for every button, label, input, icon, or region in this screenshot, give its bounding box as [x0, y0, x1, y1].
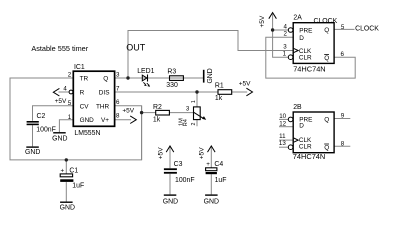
svg-text:1uF: 1uF [72, 183, 84, 190]
svg-text:CV: CV [80, 103, 90, 110]
wire 2B pin11 stub [279, 139, 293, 141]
svg-text:THR: THR [96, 103, 110, 110]
2B pin bubbles [288, 117, 293, 122]
svg-text:GND: GND [204, 198, 219, 205]
svg-text:6: 6 [341, 51, 345, 58]
wire C1 down [65, 160, 67, 174]
svg-text:6: 6 [116, 99, 120, 106]
ground C3 [164, 194, 177, 195]
svg-text:R3: R3 [167, 68, 176, 75]
2A pin bubbles [288, 28, 293, 33]
wire pin1 to GND [59, 120, 73, 133]
svg-text:2A: 2A [293, 14, 302, 21]
+5V arrow above C4 [208, 146, 216, 152]
node Q-OUT junction [126, 76, 129, 79]
resistor R2 1k [156, 110, 170, 115]
svg-text:GND: GND [25, 149, 40, 156]
svg-text:GND: GND [60, 205, 75, 212]
+5V arrow above C3 [166, 146, 174, 152]
wire R1 to +5V [232, 91, 248, 93]
svg-text:+5V: +5V [239, 80, 251, 87]
svg-text:13: 13 [279, 140, 286, 147]
+5V arrow at pin8 [130, 116, 136, 124]
wire C1 to GND [65, 182, 67, 201]
svg-text:R1: R1 [215, 82, 224, 89]
svg-text:12: 12 [279, 120, 286, 127]
svg-text:LM555N: LM555N [74, 130, 100, 137]
ground C4 [205, 194, 218, 195]
wire pot pin2 stub [196, 120, 198, 127]
svg-text:8: 8 [116, 113, 120, 120]
svg-text:1: 1 [191, 100, 197, 103]
wire DIS row to R1 [115, 91, 219, 93]
+5V arrow at pin4 [53, 88, 59, 96]
wire C4 to GND [210, 174, 212, 194]
svg-text:+: + [206, 161, 210, 168]
svg-text:Q: Q [103, 75, 108, 82]
wire R2 row to pot [142, 112, 156, 114]
svg-text:LED1: LED1 [137, 68, 154, 75]
ground rotated after R3 [203, 70, 205, 83]
flip-flop 2B 74HC74N [293, 112, 334, 153]
ground IC1 pin1 [53, 132, 65, 133]
pin 4 bubble [69, 90, 73, 94]
resistor R1 1k [218, 90, 232, 95]
svg-text:+5V: +5V [122, 108, 134, 115]
svg-text:D: D [299, 123, 304, 130]
svg-text:10: 10 [279, 113, 286, 120]
svg-text:5: 5 [341, 24, 345, 31]
wire C3 +5V down [169, 147, 171, 168]
svg-text:+: + [61, 167, 65, 174]
wire C4 +5V down [210, 147, 212, 168]
capacitor C3 100nF [164, 168, 177, 170]
wire TR-THR loop net [10, 78, 142, 160]
svg-text:74HC74N: 74HC74N [293, 65, 325, 74]
potentiometer R4 1M [194, 107, 201, 120]
svg-text:R: R [80, 89, 85, 96]
svg-text:IC1: IC1 [74, 64, 85, 71]
IC U1 timer IC1 LM555N [73, 71, 114, 126]
svg-text:Astable 555 timer: Astable 555 timer [31, 44, 88, 53]
2B pin numbers [279, 113, 345, 148]
capacitor C2 100nF [27, 121, 39, 123]
wire 2B pin12 stub [279, 126, 293, 128]
+5V arrow at R1 [246, 88, 252, 96]
wire 2B pin9 stub [334, 118, 350, 120]
LED LED1 [142, 75, 147, 81]
svg-text:CLOCK: CLOCK [355, 26, 379, 33]
svg-text:1: 1 [68, 114, 72, 121]
node DIS-R1-pot junction [195, 90, 198, 93]
svg-text:3: 3 [116, 72, 120, 79]
svg-text:2B: 2B [293, 104, 302, 111]
svg-text:C2: C2 [37, 113, 46, 120]
svg-text:4: 4 [283, 24, 287, 31]
svg-text:8: 8 [341, 140, 345, 147]
node C1 junction [65, 158, 68, 161]
svg-text:1k: 1k [215, 95, 223, 102]
node THR-R2 junction [140, 111, 143, 114]
wire 2A Q to CLOCK [334, 28, 354, 30]
svg-text:+5V: +5V [157, 147, 164, 160]
svg-text:Q: Q [324, 145, 329, 152]
svg-text:2: 2 [68, 72, 72, 79]
svg-text:+5V: +5V [199, 147, 206, 160]
wire 2A PRE +5V [273, 14, 289, 30]
svg-text:GND: GND [163, 198, 178, 205]
svg-text:Q: Q [324, 117, 329, 124]
svg-text:+5V: +5V [259, 15, 266, 28]
svg-text:7: 7 [116, 86, 120, 93]
wire 2A CLR tie [273, 30, 289, 57]
svg-text:CLR: CLR [299, 144, 312, 151]
wire CV to C2 [33, 106, 74, 121]
+5V arrow above 2A [269, 13, 277, 19]
wire Q row with OUT [115, 77, 204, 79]
svg-text:1: 1 [283, 51, 287, 58]
svg-text:100nF: 100nF [175, 177, 195, 184]
wire THR junction down R2 [141, 106, 143, 160]
wire 2B pin8 stub [334, 145, 350, 147]
svg-text:2: 2 [283, 31, 287, 38]
svg-text:PRE: PRE [299, 27, 312, 34]
svg-text:CLR: CLR [299, 55, 312, 62]
wire 2A D input [266, 37, 355, 78]
svg-text:CLOCK: CLOCK [314, 18, 338, 25]
svg-text:Q: Q [324, 27, 329, 34]
svg-text:GND: GND [207, 68, 214, 83]
svg-text:1uF: 1uF [215, 177, 227, 184]
wire pot pin1 [196, 92, 198, 107]
2A clock triangle [294, 48, 299, 52]
svg-text:9: 9 [341, 113, 345, 120]
svg-text:TR: TR [80, 75, 89, 82]
svg-text:5: 5 [68, 100, 72, 107]
svg-text:11: 11 [279, 133, 286, 140]
wire C2 to GND [32, 125, 34, 146]
svg-text:C4: C4 [214, 161, 223, 168]
wire 2B pin13 stub [279, 146, 288, 148]
svg-text:74HC74N: 74HC74N [293, 152, 325, 161]
svg-text:+5V: +5V [55, 98, 67, 105]
wire C3 to GND [169, 174, 171, 195]
svg-text:3: 3 [186, 105, 190, 112]
svg-text:R4: R4 [183, 119, 189, 126]
resistor R3 330 [170, 76, 184, 81]
LED1 emission arrows [143, 82, 148, 85]
svg-text:OUT: OUT [126, 42, 146, 52]
svg-text:C3: C3 [174, 161, 183, 168]
2B clock triangle [294, 138, 299, 142]
svg-text:2: 2 [191, 123, 197, 126]
ground C2 [26, 146, 39, 147]
wire R2 to pot pin3 [169, 112, 193, 114]
svg-text:3: 3 [283, 44, 287, 51]
wire OUT to 2A CLK [128, 31, 293, 79]
svg-text:V+: V+ [101, 117, 109, 124]
svg-text:DIS: DIS [99, 89, 110, 96]
svg-text:D: D [299, 35, 304, 42]
wire R pin4 to +5V [59, 91, 70, 93]
ground C1 [60, 202, 73, 203]
flip-flop 2A 74HC74N [293, 23, 334, 64]
svg-text:1k: 1k [153, 116, 161, 123]
node 2A PRE +5V junction [271, 28, 274, 31]
svg-text:GND: GND [52, 136, 67, 143]
svg-text:100nF: 100nF [36, 126, 56, 133]
svg-text:Q: Q [324, 55, 329, 62]
2A pin numbers [283, 24, 345, 58]
svg-text:R2: R2 [153, 104, 162, 111]
svg-text:4: 4 [63, 86, 67, 93]
svg-text:330: 330 [166, 82, 178, 89]
wire 2B pin10 stub [279, 118, 288, 120]
svg-text:GND: GND [80, 117, 95, 124]
wire V+ pin8 to +5V [115, 119, 131, 121]
